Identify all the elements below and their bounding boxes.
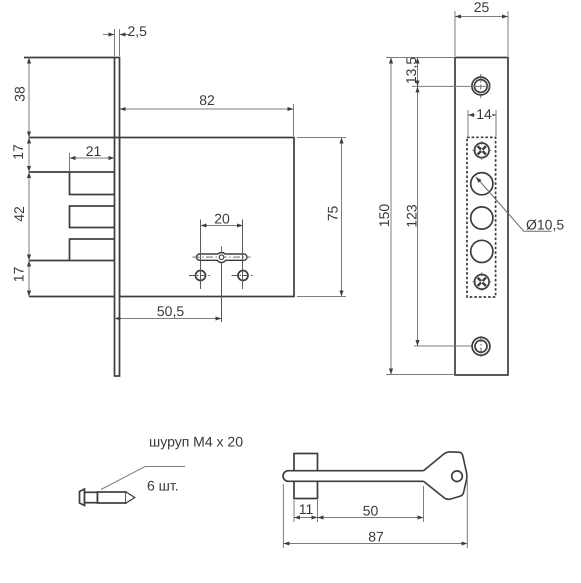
lock body (side view) [120, 138, 295, 297]
dimension 50,5 [115, 318, 222, 320]
dimension 150 [390, 58, 392, 375]
dimension 42 [28, 172, 30, 261]
svg-text:2,5: 2,5 [128, 23, 148, 39]
svg-text:17: 17 [11, 267, 27, 283]
dimension 25 [454, 11, 456, 56]
svg-text:38: 38 [12, 86, 28, 102]
keyhole small circle [219, 255, 224, 260]
bottom screw hole [472, 337, 490, 355]
leader Ø10,5 [476, 177, 552, 231]
dimension 13,5 [417, 58, 419, 87]
slot centerline horizontal [193, 256, 251, 258]
top screw hole centerline horizontal / 13,5 leader [412, 85, 491, 87]
key bow hole [452, 471, 463, 482]
extension line key left end [282, 484, 284, 548]
svg-text:11: 11 [299, 501, 314, 517]
extension line keyhole center to 50,5 [221, 262, 223, 322]
svg-text:82: 82 [199, 92, 215, 108]
fixing hole left [196, 271, 206, 281]
svg-text:20: 20 [214, 211, 230, 227]
keyhole slot with center bulge (union outline) [197, 253, 247, 263]
dimension 38 [28, 58, 30, 138]
svg-text:75: 75 [325, 206, 341, 222]
svg-text:6 шт.: 6 шт. [147, 478, 179, 494]
faceplate plate [455, 58, 508, 376]
dimension 21 [69, 153, 71, 171]
svg-text:14: 14 [476, 106, 492, 122]
fixing hole right [238, 271, 248, 281]
faceplate (side view) [115, 58, 120, 377]
top screw hole centerline vertical [480, 74, 482, 98]
dimension 17 (bottom) [28, 261, 30, 297]
dimension 50 [318, 517, 424, 519]
extension line bolt3 bottom left [29, 260, 70, 262]
top screw hole [472, 77, 490, 95]
cylinder hole 1 [471, 173, 493, 195]
dimension 11 [294, 517, 318, 519]
screw leader line [101, 467, 185, 490]
cylinder hole 3 [471, 240, 493, 262]
key shaft [283, 471, 426, 482]
key bit [294, 454, 318, 499]
svg-text:87: 87 [368, 529, 384, 545]
screw head [80, 489, 85, 506]
extension line bit left [293, 500, 295, 522]
extension line body top edge left [29, 137, 120, 139]
extension line shaft end [423, 486, 425, 522]
cross screw top [475, 143, 490, 158]
dimension 75 [297, 137, 346, 139]
dashed cylinder zone [467, 137, 496, 297]
dimension 14 [467, 110, 469, 136]
dimension 2,5 faceplate thickness [114, 29, 116, 56]
dimension 20 [200, 220, 202, 290]
extension line bolt1 top left [29, 171, 70, 173]
svg-text:25: 25 [474, 0, 490, 15]
svg-text:шуруп М4 х 20: шуруп М4 х 20 [149, 434, 243, 450]
dimension 82 [293, 104, 295, 136]
extension line body bottom left [29, 296, 115, 298]
dimension 17 (top) [28, 138, 30, 173]
screw threaded body [98, 492, 127, 503]
screw shank [85, 492, 98, 502]
dimension 87 [283, 543, 467, 545]
svg-text:50: 50 [363, 503, 379, 519]
fixing hole left cross [189, 275, 212, 277]
svg-text:42: 42 [11, 206, 27, 222]
svg-text:21: 21 [86, 143, 102, 159]
svg-text:123: 123 [404, 204, 420, 228]
cross screw bottom [475, 275, 490, 290]
svg-text:13,5: 13,5 [403, 57, 419, 84]
svg-text:Ø10,5: Ø10,5 [526, 217, 564, 233]
key bow [424, 452, 468, 500]
extension line bow right [466, 479, 468, 548]
bolt 3 [70, 239, 115, 261]
slot centerline vertical above [221, 247, 223, 253]
extension line body top to dim chain [24, 57, 115, 59]
dimension 123 [414, 345, 491, 347]
plate top edge extension left [386, 57, 455, 59]
screw tip [126, 492, 135, 503]
fixing hole right cross [232, 275, 255, 277]
bolt 1 [70, 172, 115, 195]
svg-text:150: 150 [376, 204, 392, 228]
bottom screw hole centerline vertical [480, 336, 482, 358]
cylinder hole 2 [471, 207, 493, 229]
bolt 2 [70, 206, 115, 228]
plate bottom edge extension left [386, 374, 455, 376]
svg-text:50,5: 50,5 [157, 303, 184, 319]
svg-text:17: 17 [10, 144, 26, 160]
extension line bit right [317, 500, 319, 522]
